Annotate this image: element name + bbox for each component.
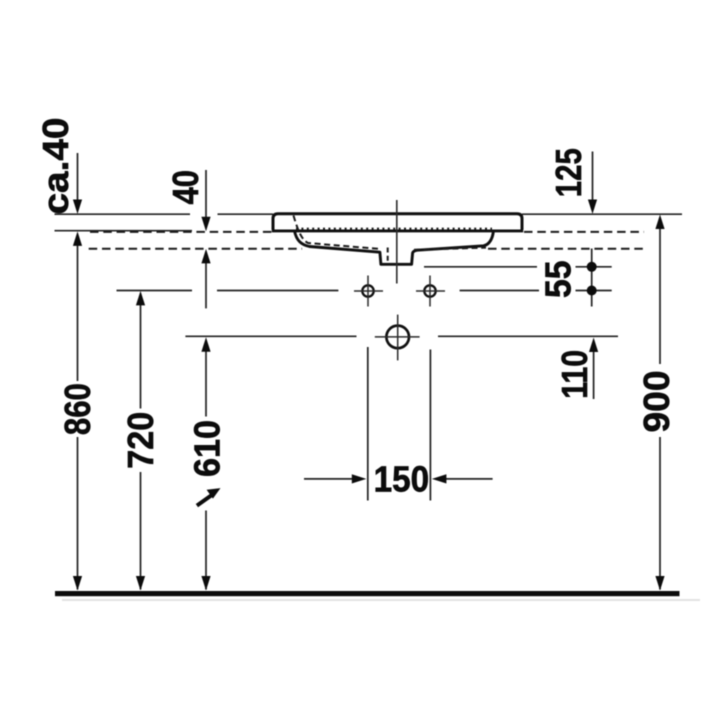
basin bowl outer profile [295,231,494,264]
arrowhead 150 pointing right [352,474,367,483]
svg-text:150: 150 [374,458,430,499]
arrowhead 40 down [201,217,210,232]
svg-text:860: 860 [57,383,98,435]
basin rim outline [273,214,522,230]
arrowhead 150 pointing left [432,474,447,483]
wire: faucet axis line left-middle segment [217,290,338,292]
drain hole crosshair horizontal [375,336,420,338]
wire: trap level line left stub [424,266,537,268]
dimension 150 extension line right [429,350,431,501]
svg-text:110: 110 [554,350,595,399]
dimension ca.40 leader line [77,153,79,202]
arrowhead 720 down at floor [136,576,145,591]
basin hidden trap dashed edge [387,248,389,264]
faucet hole left crosshair vertical [367,276,369,307]
wire: countertop top line middle segment [218,213,274,215]
dimension 860 line lower [77,437,79,590]
wire: countertop top line left segment [55,213,191,215]
faucet hole left circle [362,285,373,296]
arrowhead 40 up counterpart [201,249,210,264]
faucet hole right crosshair vertical [429,276,431,307]
dimension 860 line upper [77,246,79,382]
dimension 900 line lower [659,437,661,590]
svg-text:900: 900 [636,371,677,433]
dimension 150 arrow line left [304,478,353,480]
svg-text:40: 40 [165,170,206,205]
wire: faucet axis line right stub through lower dot [576,290,612,292]
wire: hidden dashed line lower right [488,248,644,250]
dimension 900 line upper [659,228,661,364]
dimension 55 lower dot [587,286,597,296]
basin hidden interior dashed line right [414,248,486,250]
arrowhead 610 up at drain level [201,337,210,352]
wire: hidden dashed line lower left [89,248,302,250]
faucet hole left crosshair horizontal [354,290,383,292]
arrowhead 720 up [136,291,145,306]
drain hole crosshair vertical [397,315,399,361]
basin centerline [396,200,398,284]
dimension 720 line upper [140,304,142,409]
dimension 720 line lower [140,472,142,590]
dimension 610 line upper [205,352,207,417]
basin hidden interior dashed line left [294,216,379,249]
wire: countertop top line right segment [522,213,682,215]
arrowhead 110 up [589,338,598,353]
basin inner edge dotted texture [296,228,492,230]
arrowhead 610 down at floor [201,576,210,591]
dimension 55 vertical line [591,249,593,307]
dimension 55 upper dot [587,262,597,272]
wire: countertop bottom line left segment [55,230,193,232]
svg-text:125: 125 [548,148,589,197]
dimension 110 line [593,350,595,399]
svg-text:ca.40: ca.40 [35,118,76,215]
basin rim bottom edge [272,229,523,232]
svg-text:55: 55 [538,260,579,298]
wire: trap level line right stub through upper dot [576,266,612,268]
wire: hidden dashed line upper right [524,231,644,233]
faucet hole right crosshair horizontal [416,290,445,292]
wire: faucet axis line far left segment [117,290,193,292]
svg-text:610: 610 [187,420,228,477]
wire: drain level line left segment [185,335,356,337]
leader arrow at 610 diagonal [197,488,221,506]
arrowhead 900 down at floor [655,576,664,591]
wire: faucet axis line middle-right segment [460,290,539,292]
dimension 40 leader line [205,170,207,218]
dimension 40 lower arrow tail [205,262,207,308]
floor line [55,591,680,596]
arrowhead 860 up [73,231,82,246]
wire: drain level line right segment [438,335,618,337]
floor line faint echo [62,599,700,601]
arrowhead 860 down at floor [73,576,82,591]
dimension 150 extension line left [367,347,369,501]
svg-text:720: 720 [120,412,161,469]
arrowhead ca.40 down [73,200,82,215]
drain hole circle [386,326,409,349]
dimension 150 arrow line right [445,478,493,480]
dimension 125 leader line [592,152,594,202]
arrowhead 900 up [655,215,664,230]
arrowhead 125 down [588,200,597,215]
dimension 610 line lower [205,511,207,590]
faucet hole right circle [424,285,435,296]
wire: hidden dashed line upper left [90,231,272,233]
